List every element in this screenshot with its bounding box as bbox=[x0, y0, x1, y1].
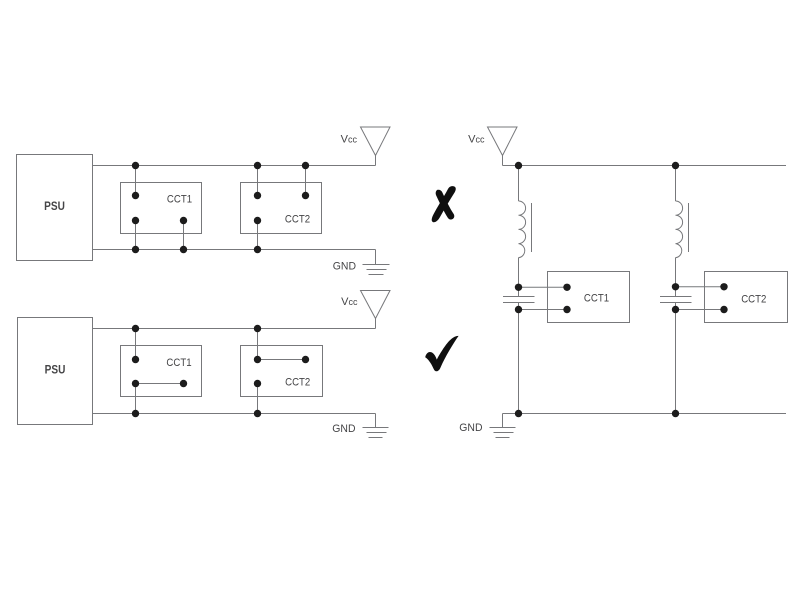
wire CCT2 Vcc feed left (top circuit) bbox=[257, 166, 259, 196]
inductor L2 bbox=[676, 201, 683, 258]
wire CCT2 internal feed link (bottom circuit) bbox=[258, 359, 306, 361]
svg-text:GND: GND bbox=[333, 260, 356, 272]
wire L1 to node A bbox=[518, 258, 520, 297]
wire node D down to GND rail (right circuit) bbox=[675, 303, 677, 414]
CCT2 box (right circuit) bbox=[705, 272, 788, 323]
ground symbol (right circuit) bbox=[490, 414, 516, 438]
wire GND rail (bottom circuit) bbox=[93, 413, 376, 415]
inductor L1 core bar bbox=[531, 203, 533, 252]
CCT2 box (top circuit) bbox=[241, 183, 322, 234]
svg-text:Vcc: Vcc bbox=[341, 296, 358, 308]
svg-text:PSU: PSU bbox=[44, 200, 65, 213]
wire node C to CCT2 pin 1 bbox=[676, 286, 725, 288]
wire branch 2 upper (right circuit) bbox=[675, 166, 677, 202]
svg-text:CCT2: CCT2 bbox=[741, 293, 766, 306]
wire L2 to node C bbox=[675, 258, 677, 297]
wire CCT2 single return (bottom circuit) bbox=[257, 384, 259, 414]
Vcc supply symbol (top circuit) bbox=[361, 127, 391, 166]
capacitor C2 bbox=[660, 297, 692, 303]
CCT1 box (right circuit) bbox=[548, 272, 630, 323]
wire CCT1 Vcc feed (top circuit) bbox=[135, 166, 137, 196]
ground symbol (top circuit) bbox=[363, 250, 390, 275]
wire Vcc rail (right circuit) bbox=[503, 165, 787, 167]
svg-text:CCT2: CCT2 bbox=[285, 376, 310, 389]
wire Vcc rail (top circuit) bbox=[93, 165, 376, 167]
Vcc supply symbol (right circuit) bbox=[488, 127, 518, 166]
CCT2 box (bottom circuit) bbox=[241, 346, 323, 397]
junction dots (right circuit) bbox=[515, 162, 728, 417]
wire CCT1 return left (top circuit) bbox=[135, 221, 137, 250]
wire CCT1 Vcc feed (bottom circuit) bbox=[135, 329, 137, 360]
wire CCT2 Vcc feed (bottom circuit) bbox=[257, 329, 259, 360]
wire CCT1 return right (top circuit) bbox=[183, 221, 185, 250]
wire CCT1 single return (bottom circuit) bbox=[135, 384, 137, 414]
PSU U2 box bbox=[18, 318, 93, 425]
CCT1 box (bottom circuit) bbox=[121, 346, 202, 397]
wire CCT1 internal return link (bottom circuit) bbox=[136, 383, 184, 385]
inductor L2 core bar bbox=[688, 203, 690, 252]
wire branch 1 upper (right circuit) bbox=[518, 166, 520, 202]
svg-text:CCT1: CCT1 bbox=[166, 356, 191, 369]
wire GND rail (right circuit) bbox=[503, 413, 787, 415]
svg-text:CCT2: CCT2 bbox=[285, 213, 310, 226]
PSU U1 box bbox=[17, 155, 93, 261]
inductor L1 bbox=[519, 201, 526, 258]
wire CCT2 return (top circuit) bbox=[257, 221, 259, 250]
svg-text:Vcc: Vcc bbox=[468, 133, 485, 145]
wire node D to CCT2 pin 2 bbox=[676, 309, 725, 311]
wire Vcc rail (bottom circuit) bbox=[93, 328, 376, 330]
ground symbol (bottom circuit) bbox=[363, 414, 389, 438]
junction dots (top circuit) bbox=[132, 162, 309, 253]
svg-text:CCT1: CCT1 bbox=[167, 193, 192, 206]
wire GND rail (top circuit) bbox=[93, 249, 376, 251]
svg-text:Vcc: Vcc bbox=[341, 133, 358, 145]
svg-text:GND: GND bbox=[332, 423, 355, 435]
wire node B down to GND rail (right circuit) bbox=[518, 303, 520, 414]
junction dots (bottom circuit) bbox=[132, 325, 309, 417]
svg-text:GND: GND bbox=[459, 422, 482, 434]
capacitor C1 bbox=[503, 297, 535, 303]
wire node B to CCT1 pin 2 bbox=[519, 309, 568, 311]
svg-text:PSU: PSU bbox=[45, 364, 66, 377]
wire node A to CCT1 pin 1 bbox=[519, 286, 568, 288]
wire CCT2 Vcc feed right (top circuit) bbox=[305, 166, 307, 196]
CCT1 box (top circuit) bbox=[121, 183, 202, 234]
Vcc supply symbol (bottom circuit) bbox=[361, 291, 391, 329]
svg-text:CCT1: CCT1 bbox=[584, 292, 609, 305]
